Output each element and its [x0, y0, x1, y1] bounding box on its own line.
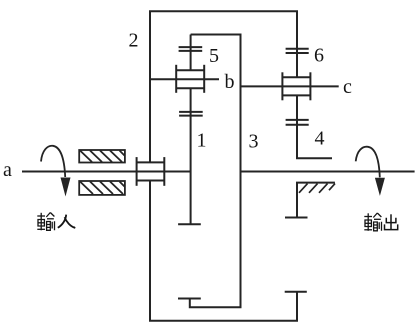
housing box 2 : lower left edge + bottom edge + lower right edge: [150, 181, 297, 321]
output bearing foot: [285, 217, 308, 219]
input rotation arrow: [41, 146, 71, 197]
label 輸出 (output) hand-drawn glyph 出: [385, 214, 398, 229]
input shaft a: [22, 171, 191, 173]
gear block on shaft b: [175, 65, 177, 93]
label 輸入 (input) hand-drawn glyph 輸: [37, 213, 54, 231]
output bearing hatch strokes: [299, 184, 335, 193]
svg-text:4: 4: [315, 128, 325, 150]
svg-text:1: 1: [197, 130, 207, 152]
bearing T-bar at gear 1 shaft bottom: [178, 223, 201, 225]
gear 1 shaft (vertical, broken at gear block b): [190, 35, 192, 71]
coupling gear block on shaft a at housing wall: [136, 157, 138, 186]
svg-text:a: a: [3, 159, 12, 181]
gear 4 shaft lower segment with L-flange: [297, 95, 332, 158]
bearing T-bar at inner box bottom: [178, 298, 201, 300]
gear mesh 6 (bars): [286, 48, 309, 50]
svg-text:5: 5: [209, 45, 219, 67]
svg-text:b: b: [225, 71, 235, 93]
input bearing upper block (hatched): [79, 150, 125, 163]
svg-text:6: 6: [314, 45, 324, 67]
housing box 2 : top + upper left edge + upper right edge (gear 6 shaft): [150, 11, 297, 162]
gear mesh 4 (bars): [286, 119, 309, 121]
output rotation arrow: [356, 147, 385, 196]
gear mesh 5 (bars): [179, 46, 203, 48]
svg-text:2: 2: [129, 30, 139, 52]
shaft c: [241, 85, 339, 87]
gear block on shaft c: [281, 72, 283, 100]
svg-text:3: 3: [249, 131, 259, 153]
label 輸出 (output) hand-drawn glyph 輸: [364, 213, 381, 231]
input bearing lower block (hatched): [79, 181, 125, 195]
shaft b: [150, 78, 219, 80]
label 輸入 (input) hand-drawn glyph 入: [58, 215, 75, 228]
gear mesh 1 (bars below block b): [179, 111, 203, 113]
bearing T-bar at housing bottom right: [285, 291, 307, 293]
svg-text:c: c: [343, 76, 352, 98]
output bearing block (hatched, below shaft): [297, 183, 335, 218]
inner box 3 (top, right edge, bottom edge, stem): [190, 35, 241, 308]
output shaft: [241, 171, 415, 173]
